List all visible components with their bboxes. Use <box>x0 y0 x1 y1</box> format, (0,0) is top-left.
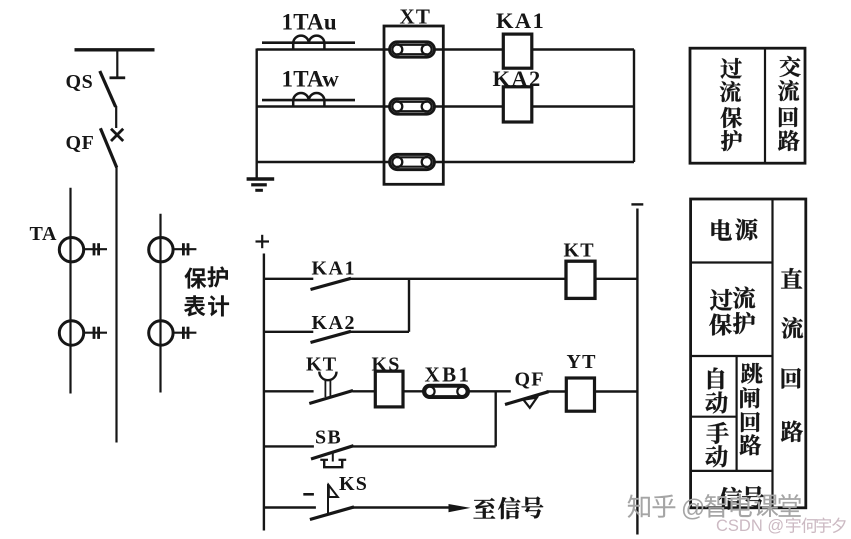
QS fixed contact tick <box>110 76 126 79</box>
wire KA2 to rung1 vertical <box>408 279 410 332</box>
svg-text:KA1: KA1 <box>496 8 545 33</box>
watermark csdn <box>716 517 846 535</box>
wire DC left bus <box>263 254 265 531</box>
svg-text:TA: TA <box>30 223 58 245</box>
node minus label <box>303 493 314 496</box>
CT circle left-1 <box>59 238 83 262</box>
wire DC right bus <box>636 209 638 535</box>
wire right CT branch <box>159 214 161 393</box>
wire rung 3 <box>264 390 314 392</box>
wire main feeder <box>115 167 117 443</box>
relay coil KA1 <box>503 34 532 68</box>
label jiaoliu huilu (AC circuit) column <box>780 56 801 77</box>
breaker aux contact QF blade <box>505 392 549 405</box>
wire left CT branch <box>69 188 71 394</box>
connector XB1 <box>423 385 468 397</box>
node plus polarity <box>256 240 270 242</box>
table DC trip column divider <box>735 356 737 471</box>
XT terminal 1 <box>390 42 435 57</box>
wire phase-w line <box>257 105 390 107</box>
CT circle right-1 <box>149 238 173 262</box>
watermark zhihu <box>628 494 801 522</box>
table DC legend main divider <box>771 199 773 508</box>
svg-text:CSDN @: CSDN @ <box>716 517 784 535</box>
signal contact KS blade <box>310 507 354 520</box>
arrow to signal <box>449 504 471 512</box>
CT right-1 secondary tick <box>173 248 196 250</box>
contact KA2 blade <box>311 331 352 342</box>
CT circle left-2 <box>59 321 83 345</box>
disconnector QS blade <box>100 71 116 107</box>
trip coil YT <box>566 378 594 411</box>
time contact KT blade <box>309 391 353 404</box>
svg-text:1TAu: 1TAu <box>282 10 337 35</box>
svg-text:@: @ <box>681 495 705 522</box>
label baohu biaoji (protection metering) <box>184 267 206 288</box>
label zhi xinhao (to signal) <box>473 498 495 519</box>
label zidong (auto) <box>708 367 724 389</box>
CT right-2 secondary tick <box>173 332 196 334</box>
ground <box>247 177 275 180</box>
table AC legend divider <box>764 48 766 163</box>
wire rung 1 <box>264 278 313 280</box>
signal contact KS flag <box>327 484 329 514</box>
wire rung 5 <box>264 506 316 508</box>
svg-text:KT: KT <box>564 240 595 262</box>
wire busbar drop <box>116 50 118 78</box>
circuit breaker QF blade <box>100 128 116 167</box>
CT 1TAu winding <box>262 41 355 44</box>
table DC row border 1 <box>691 261 773 263</box>
svg-text:YT: YT <box>567 351 597 373</box>
label guoliu baohu cell <box>710 289 732 311</box>
time relay coil KT <box>566 261 595 298</box>
CT left-2 secondary tick <box>84 332 107 334</box>
table DC row border 2 <box>691 355 773 357</box>
label dianyuan (power) <box>712 219 732 240</box>
circuit breaker QF x-mark <box>111 129 123 141</box>
pushbutton SB blade <box>311 446 354 459</box>
svg-text:KT: KT <box>306 354 337 376</box>
XT terminal 3 <box>390 154 435 169</box>
svg-text:KS: KS <box>339 473 368 495</box>
contact KA1 blade <box>311 278 352 289</box>
node minus polarity (right bus top) <box>631 203 643 205</box>
wire AC left vertical <box>256 49 258 178</box>
time contact KT delay actuator <box>324 379 326 397</box>
busbar <box>75 48 155 51</box>
label shoudong (manual) <box>706 422 728 444</box>
svg-text:QS: QS <box>66 71 94 93</box>
label xinhao (signal) <box>719 487 742 510</box>
wire neutral line <box>257 161 390 163</box>
relay coil KA2 <box>503 87 532 122</box>
breaker aux contact QF travel triangle <box>523 398 537 408</box>
svg-text:SB: SB <box>315 427 342 449</box>
svg-text:XB1: XB1 <box>425 363 472 387</box>
wire AC right vertical <box>633 50 635 163</box>
table DC legend outline <box>691 199 806 508</box>
table AC legend outline <box>690 48 805 163</box>
label zhiliu huilu (DC circuit) column <box>781 268 802 289</box>
XT terminal 2 <box>390 99 435 114</box>
wire phase-u line <box>257 48 390 50</box>
terminal block XT outline <box>384 26 443 184</box>
svg-text:QF: QF <box>66 132 95 154</box>
table DC auto/manual divider <box>691 416 737 418</box>
CT 1TAw winding <box>262 99 355 102</box>
CT left-1 secondary tick <box>84 248 107 250</box>
wire QS to QF <box>115 106 117 128</box>
label guoliu baohu (overcurrent protection) column <box>720 58 741 79</box>
CT circle right-2 <box>149 321 173 345</box>
svg-text:1TAw: 1TAw <box>282 67 340 92</box>
wire rung 2 <box>264 331 313 333</box>
label tiaozha huilu (trip circuit) column <box>741 363 763 384</box>
pushbutton SB actuator <box>332 453 334 462</box>
wire rung 4 <box>264 445 314 447</box>
wire rung4 to rung3 vertical <box>495 391 497 446</box>
svg-text:KA1: KA1 <box>312 258 357 280</box>
signal relay KS coil <box>375 371 403 407</box>
svg-text:QF: QF <box>515 369 545 391</box>
table DC row border 3 <box>691 470 773 472</box>
